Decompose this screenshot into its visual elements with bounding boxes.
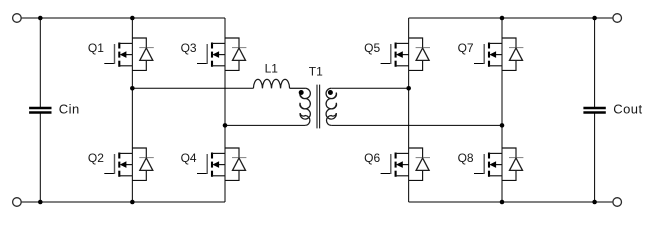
svg-text:Q7: Q7: [458, 41, 474, 55]
svg-text:T1: T1: [309, 65, 323, 79]
svg-text:Q3: Q3: [181, 41, 197, 55]
svg-text:Cout: Cout: [613, 102, 642, 117]
svg-text:L1: L1: [265, 62, 279, 76]
svg-text:Q2: Q2: [88, 151, 104, 165]
svg-text:Q5: Q5: [364, 41, 380, 55]
svg-text:Cin: Cin: [59, 102, 80, 117]
svg-text:Q1: Q1: [88, 41, 104, 55]
svg-text:Q6: Q6: [364, 151, 380, 165]
svg-text:Q8: Q8: [458, 151, 474, 165]
svg-text:Q4: Q4: [181, 151, 197, 165]
